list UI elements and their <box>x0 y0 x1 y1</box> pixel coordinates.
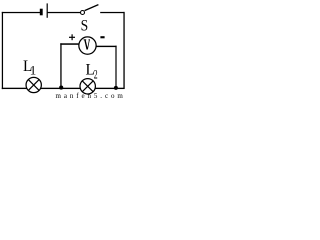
svg-text:S: S <box>81 17 89 34</box>
svg-text:1: 1 <box>30 62 37 77</box>
svg-text:2: 2 <box>94 69 98 82</box>
svg-text:manfen5.com: manfen5.com <box>56 92 126 99</box>
